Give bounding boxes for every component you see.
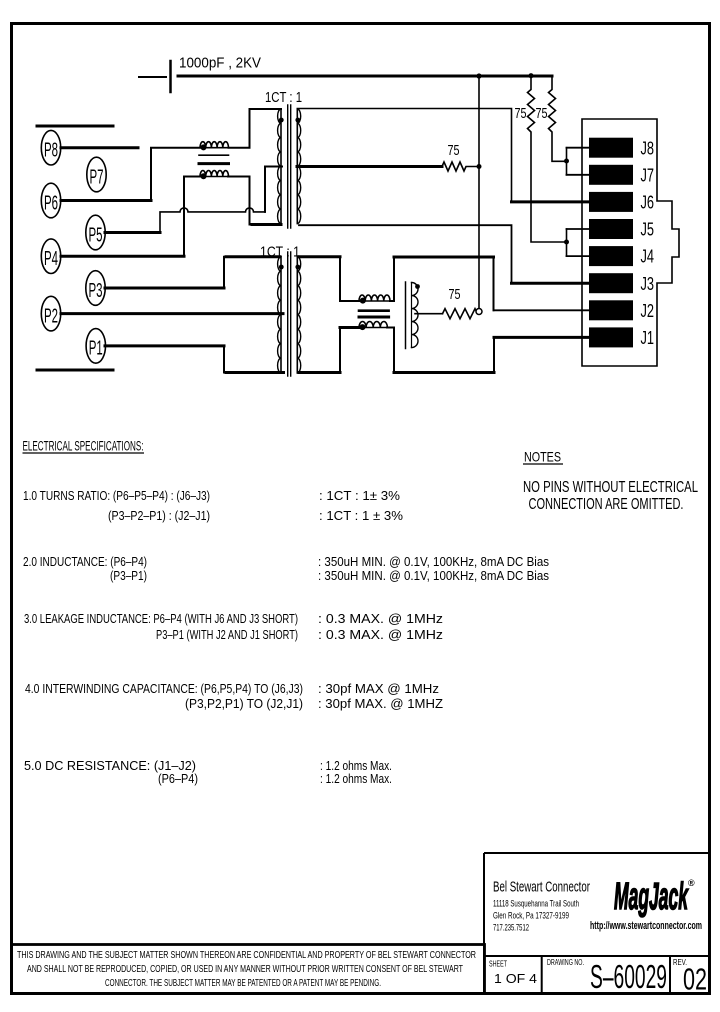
svg-text:(P3,P2,P1) TO (J2,J1): (P3,P2,P1) TO (J2,J1) [185,697,303,711]
svg-text:2.0 INDUCTANCE: (P6–P4): 2.0 INDUCTANCE: (P6–P4) [23,555,147,569]
pin P1 [86,329,105,364]
svg-text:: 1.2 ohms Max.: : 1.2 ohms Max. [320,759,392,773]
transformer T1 primary dot [279,118,284,123]
svg-text:J8: J8 [641,138,655,158]
transformer T2 primary dot [279,265,284,270]
pin P3 [86,271,105,306]
wire choke L2 upper to J2 [390,257,494,310]
connector pad J4 [589,246,633,266]
resistor R3 75 ohm vertical [549,76,567,161]
svg-text:: 30pf MAX. @ 1MHZ: : 30pf MAX. @ 1MHZ [318,697,443,711]
svg-text:THIS DRAWING AND THE SUBJECT M: THIS DRAWING AND THE SUBJECT MATTER SHOW… [17,949,476,961]
svg-text:AND SHALL NOT BE REPRODUCED, C: AND SHALL NOT BE REPRODUCED, COPIED, OR … [27,963,463,975]
transformer T2 secondary dot [295,265,300,270]
wire T1 primary center tap [265,167,282,212]
transformer T1 secondary winding [296,109,298,224]
svg-text:: 1CT : 1± 3%: : 1CT : 1± 3% [319,489,400,503]
connector pad J1 [589,327,633,347]
svg-text:P3–P1 (WITH J2 AND J1 SHORT): P3–P1 (WITH J2 AND J1 SHORT) [156,628,298,642]
capacitor C1 left lead [139,76,166,78]
wire P4 to choke L1 lower [61,177,184,257]
svg-text:3.0 LEAKAGE INDUCTANCE: P6–: 3.0 LEAKAGE INDUCTANCE: P6–P4 (WITH J6 A… [24,612,298,626]
node: junction dot top rail / R2 [528,73,533,78]
svg-text:P8: P8 [44,140,58,162]
wire T2 secondary top to choke L2 upper [299,257,359,301]
resistor R2 75 ohm vertical [528,76,567,242]
choke L2 core [359,309,389,312]
svg-text:J2: J2 [641,301,655,321]
svg-text:®: ® [688,878,695,888]
svg-text:75: 75 [515,106,527,122]
svg-text:P2: P2 [44,305,58,327]
choke L1 polarity dot upper [201,144,207,150]
svg-text:CONNECTION ARE OMITTED.: CONNECTION ARE OMITTED. [529,496,684,513]
choke L2 polarity dot lower [360,324,366,330]
connector pad J5 [589,219,633,239]
svg-text:Glen Rock, Pa 17327-9199: Glen Rock, Pa 17327-9199 [493,911,569,921]
svg-text:P3: P3 [89,280,103,302]
svg-text:75: 75 [536,106,548,122]
wire choke L2 lower to J1 [387,328,494,373]
connector pad J7 [589,165,633,185]
choke L2 lower winding [359,327,388,329]
wire: vertical bus from top rail to R4 ring [478,76,480,308]
svg-text:02: 02 [683,962,707,997]
node: junction dot top rail / vertical bus [476,73,481,78]
no-connect bar top [37,125,113,128]
no-connect bar bottom [37,369,113,372]
svg-text:: 350uH MIN. @ 0.1V, 100KHz, 8: : 350uH MIN. @ 0.1V, 100KHz, 8mA DC Bias [318,555,549,569]
wire choke L1 upper to T1 primary top [229,109,282,148]
wire P2 to T2 primary center tap [61,312,283,315]
svg-text:4.0 INTERWINDING CAPACITANCE:: 4.0 INTERWINDING CAPACITANCE: (P6,P5,P4)… [25,682,303,696]
choke L1 upper winding [200,147,229,149]
svg-text:S–60029: S–60029 [590,958,667,995]
pin P4 [41,239,60,274]
wire choke L1 lower to T1 primary bottom [228,177,281,225]
transformer T2 core [288,252,291,376]
transformer T1 primary winding [280,109,282,224]
capacitor C1 plate [169,61,172,92]
autotransformer T3 dot [415,284,420,289]
pin P8 [41,130,60,165]
title block [484,853,710,997]
connector pad J6 [589,192,633,212]
svg-text:: 0.3 MAX. @ 1MHz: : 0.3 MAX. @ 1MHz [318,612,443,626]
autotransformer T3 core bar [405,282,407,349]
wire T1 secondary top to J6 [297,109,511,202]
wire T1 secondary center tap to R1 [297,165,442,168]
svg-text:1.0 TURNS RATIO: (P6–P5–P4) :: 1.0 TURNS RATIO: (P6–P5–P4) : (J6–J3) [23,489,210,503]
svg-text:http://www.stewartconnector.co: http://www.stewartconnector.com [590,920,702,932]
pin P7 [87,157,106,192]
transformer T1 core [288,105,291,228]
choke L1 polarity dot lower [201,173,207,179]
svg-text:(P6–P4): (P6–P4) [158,772,198,786]
svg-text:: 0.3 MAX. @ 1MHz: : 0.3 MAX. @ 1MHz [318,628,443,642]
wire J3 [512,282,590,285]
wire T3 center tap to R4 [415,313,443,315]
connector pad J3 [589,273,633,293]
svg-text:J5: J5 [641,220,655,240]
svg-text:ELECTRICAL SPECIFICATIONS:: ELECTRICAL SPECIFICATIONS: [23,439,144,454]
svg-text:5.0 DC RESISTANCE: (J1–J2): 5.0 DC RESISTANCE: (J1–J2) [24,759,196,773]
resistor R1 75 ohm [442,162,477,171]
svg-text:11118 Susquehanna Trail South: 11118 Susquehanna Trail South [493,899,579,909]
svg-text:NO PINS WITHOUT ELECTRICAL: NO PINS WITHOUT ELECTRICAL [523,479,698,496]
svg-text:J1: J1 [641,328,655,348]
wire T1 secondary bottom to J3 [299,225,512,283]
pin P5 [86,215,105,250]
wire J5 [567,228,590,230]
wire J2 [494,309,590,311]
heading: electrical specifications [23,439,550,787]
wire P6 to choke L1 upper [61,148,200,201]
pin P6 [41,183,60,218]
svg-text:P7: P7 [90,166,104,188]
wire choke L1 lower from P4 riser [184,176,200,178]
svg-text:75: 75 [448,143,460,159]
pin P2 [41,296,60,331]
svg-text:1000pF , 2KV: 1000pF , 2KV [179,55,261,72]
svg-text:1CT : 1: 1CT : 1 [265,90,302,106]
node: junction dot R1 to vertical bus [477,164,482,169]
autotransformer T3 winding [411,283,413,348]
svg-text:P6: P6 [44,192,58,214]
disclaimer box [12,945,485,994]
node: junction dot J5/J4 branch [564,240,569,245]
svg-text:P5: P5 [89,224,103,246]
svg-text:J3: J3 [641,274,655,294]
svg-text:P1: P1 [89,338,103,360]
resistor R4 75 ohm [443,309,479,319]
choke L1 core [199,154,229,156]
svg-text:1 OF 4: 1 OF 4 [494,971,537,986]
svg-text:75: 75 [449,287,461,303]
svg-text:Bel Stewart Connector: Bel Stewart Connector [493,879,590,896]
connector housing J [582,119,679,366]
wire J8 [567,147,590,149]
node: junction dot J8/J7 branch [564,159,569,164]
wire J1 [494,336,589,339]
connector pad J2 [589,300,633,320]
wire J4 [567,255,590,257]
transformer T1 secondary dot [295,118,300,123]
wire T2 secondary bottom to choke L2 lower [299,328,359,373]
svg-text:P4: P4 [44,248,58,270]
svg-text:J7: J7 [641,165,655,185]
svg-text:: 1.2 ohms Max.: : 1.2 ohms Max. [320,772,392,786]
wire P1 to T2 primary bottom [105,346,284,373]
svg-text:CONNECTOR. THE SUBJECT MATTER: CONNECTOR. THE SUBJECT MATTER MAY BE PAT… [105,977,381,989]
notes heading [523,449,698,514]
wire J8/J7 branch vertical [566,148,568,175]
choke L1 lower winding [200,176,229,178]
choke L2 upper winding [359,300,390,302]
connector pad J8 [589,138,633,158]
svg-text:MagJack: MagJack [614,876,689,918]
wire P3 to T2 primary top [105,257,280,288]
svg-text:717.235.7512: 717.235.7512 [493,923,529,933]
svg-text:(P3–P2–P1) : (J2–J1): (P3–P2–P1) : (J2–J1) [108,509,210,523]
svg-text:: 30pf MAX @ 1MHz: : 30pf MAX @ 1MHz [318,682,439,696]
svg-text:: 350uH MIN. @ 0.1V, 100KHz, 8: : 350uH MIN. @ 0.1V, 100KHz, 8mA DC Bias [318,569,549,583]
svg-text:(P3–P1): (P3–P1) [110,569,147,583]
transformer T2 primary winding [280,257,282,373]
wire J6 [512,200,590,203]
svg-text:SHEET: SHEET [489,960,507,969]
svg-text:1CT : 1: 1CT : 1 [260,245,300,261]
svg-text:NOTES: NOTES [524,449,561,465]
svg-text:: 1CT : 1 ± 3%: : 1CT : 1 ± 3% [319,509,403,523]
wire P8 stub [61,146,138,149]
wire center tap to P5 with hops [160,208,265,233]
wire J5/J4 branch vertical [566,229,568,256]
wire J7 [567,174,590,176]
svg-text:DRAWING NO.: DRAWING NO. [547,958,584,967]
node: ring terminal R4 to vertical bus [476,309,482,315]
choke L2 polarity dot upper [360,298,366,304]
wire P5 [105,231,160,234]
transformer T2 secondary winding [296,257,298,373]
svg-text:J6: J6 [641,193,655,213]
wire: top rail from C1 to terminating resistors [178,75,552,78]
svg-text:J4: J4 [641,247,655,267]
